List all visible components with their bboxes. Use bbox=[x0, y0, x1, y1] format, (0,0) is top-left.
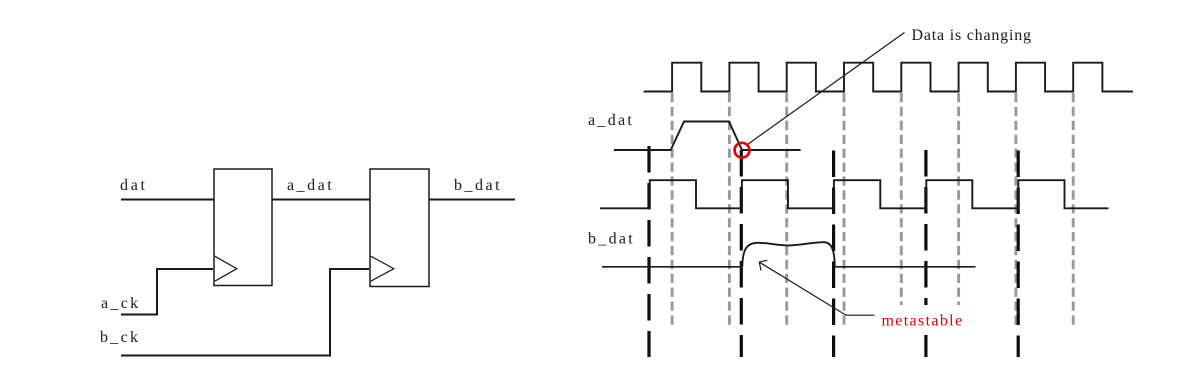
wire a_dat between flip-flops bbox=[272, 199, 370, 201]
waveform a_ck clock (top row) bbox=[644, 63, 1133, 92]
metastable arrow shaft bbox=[759, 262, 874, 315]
wire a_ck bbox=[121, 269, 213, 315]
svg-text:a_dat: a_dat bbox=[287, 177, 334, 194]
waveform b_dat baseline left bbox=[602, 266, 742, 268]
flip-flop U2 clock triangle bbox=[371, 256, 394, 281]
waveform b_ck clock (row 3) bbox=[600, 180, 1109, 208]
svg-text:dat: dat bbox=[120, 177, 148, 194]
gray dashed sample lines (a-clock rising edges) bbox=[672, 93, 1073, 325]
svg-text:b_dat: b_dat bbox=[588, 231, 635, 248]
svg-text:b_ck: b_ck bbox=[100, 329, 140, 346]
bold black dashed lines (b-clock rising edges) bbox=[649, 146, 1018, 357]
gray dashed line 3 bbox=[785, 93, 788, 325]
waveform a_dat bbox=[614, 122, 801, 151]
svg-text:a_dat: a_dat bbox=[588, 112, 634, 129]
svg-text:b_dat: b_dat bbox=[454, 177, 502, 194]
wire b_dat output bbox=[429, 199, 515, 201]
black dashed line 5 bbox=[1017, 151, 1020, 358]
gray dashed line 4 bbox=[843, 93, 846, 325]
waveform b_dat metastable hump bbox=[742, 242, 835, 267]
svg-text:a_ck: a_ck bbox=[101, 295, 140, 312]
wire dat input bbox=[121, 199, 214, 201]
white backing of metastable label bbox=[877, 305, 967, 331]
gray dashed line 8 bbox=[1072, 93, 1075, 325]
black dashed line 3 bbox=[832, 151, 835, 358]
black dashed line 2 bbox=[740, 150, 743, 357]
red circle marker: data changing point bbox=[735, 143, 750, 158]
gray dashed line 1 bbox=[671, 93, 674, 325]
gray dashed line 2 bbox=[728, 93, 731, 325]
annotation leader line to Data is changing bbox=[748, 33, 905, 145]
flip-flop U1 box bbox=[214, 169, 272, 286]
gray dashed line 5 bbox=[900, 93, 903, 325]
wire b_ck bbox=[121, 269, 369, 356]
gray dashed line 6 bbox=[957, 93, 960, 325]
svg-text:Data is changing: Data is changing bbox=[912, 27, 1032, 44]
gray dashed line 7 bbox=[1014, 93, 1017, 325]
flip-flop U2 box bbox=[370, 169, 429, 287]
svg-text:metastable: metastable bbox=[882, 313, 964, 330]
black dashed line 4 bbox=[924, 150, 927, 357]
waveform b_dat baseline right bbox=[835, 266, 976, 268]
black dashed line 1 bbox=[647, 146, 650, 357]
metastable arrowhead bbox=[759, 260, 767, 270]
flip-flop U1 clock triangle bbox=[215, 256, 237, 281]
